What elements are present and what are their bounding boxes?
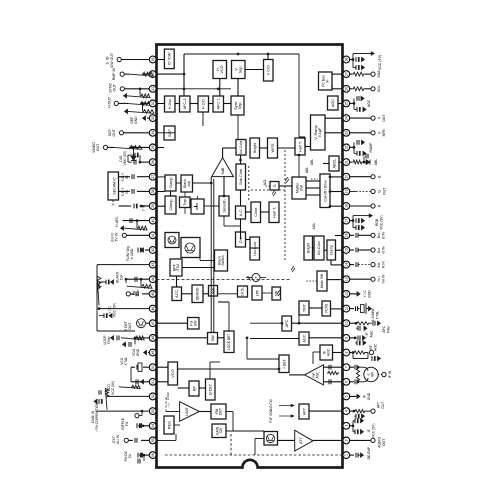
pin 18 [342, 205, 344, 207]
svg-text:19: 19 [345, 189, 349, 193]
svg-text:Half T.: Half T. [272, 207, 276, 218]
svg-text:H C/D: H C/D [202, 99, 206, 110]
pin 55 [155, 439, 157, 441]
svg-text:RGB: RGB [375, 218, 379, 226]
wire Y signal bus a [210, 177, 212, 333]
terminal R OUT [350, 205, 371, 207]
svg-text:31: 31 [151, 87, 155, 91]
wire SECAM p38 [137, 190, 149, 192]
APC filter net [350, 322, 356, 324]
svg-text:42: 42 [151, 248, 155, 252]
svg-text:44: 44 [151, 277, 155, 281]
svg-text:X'TAL: X'TAL [375, 311, 379, 320]
crystal VCO [143, 366, 149, 368]
wire long loop left [97, 264, 149, 266]
block V Sep [232, 61, 246, 79]
block Mode SW [317, 271, 327, 291]
wire clamp2 row [197, 196, 199, 199]
wire pin48 to SW2 [157, 337, 208, 339]
svg-text:20: 20 [345, 175, 349, 179]
capacitor PIF 7 [328, 365, 330, 370]
diode ABL [366, 160, 370, 165]
svg-text:Filter: Filter [107, 335, 111, 343]
dashed RGB frame short [248, 165, 250, 200]
capacitor dig vdd [134, 153, 136, 158]
video out network [129, 146, 149, 148]
block IF AGC [320, 345, 333, 360]
pin 7 [342, 366, 344, 368]
IC body outline with index notch [157, 45, 343, 468]
wire UniColor3 to pin15 [335, 249, 343, 251]
pin 46 [155, 308, 157, 310]
wire UniColor2 down [250, 247, 260, 249]
pin 42 [155, 249, 157, 251]
svg-text:9.1µF: 9.1µF [318, 127, 322, 137]
pin 41 [155, 234, 157, 236]
block SCP [164, 126, 175, 140]
block I2C Bus IF [319, 72, 333, 90]
pin 52 [155, 395, 157, 397]
svg-text:SU: SU [128, 453, 132, 458]
svg-text:35: 35 [151, 145, 155, 149]
resistor H OUT 2 [142, 103, 144, 111]
svg-text:AGC: AGC [326, 348, 330, 356]
svg-text:VCC (5V): VCC (5V) [371, 424, 375, 439]
svg-text:AFT: AFT [377, 402, 381, 408]
wire VCXO to pin11 [331, 308, 343, 310]
block TINT [299, 301, 309, 315]
dashed vert RGB [249, 189, 285, 191]
pin 45 [155, 293, 157, 295]
block BP [189, 381, 199, 396]
svg-text:Ext.: Ext. [377, 262, 381, 268]
svg-text:7: 7 [345, 366, 349, 368]
ext audio in [141, 439, 149, 441]
wire BlackAdj out [193, 182, 212, 184]
wire audio T input [255, 438, 264, 440]
pin 5 [342, 395, 344, 397]
wire ABCL to pin21 [339, 161, 343, 163]
pin 33 [155, 117, 157, 119]
block Clamp 2 [165, 196, 176, 214]
svg-text:36: 36 [151, 160, 155, 164]
dashed bottom joint [230, 433, 232, 455]
H.AFC network [123, 220, 150, 222]
pin 13 [342, 278, 344, 280]
svg-text:VDD (5V): VDD (5V) [123, 151, 127, 166]
wire pin50 to VCO [157, 366, 169, 368]
svg-text:IF: IF [363, 395, 367, 398]
terminal SCP OUT [124, 132, 150, 134]
svg-text:AGC: AGC [367, 99, 371, 107]
pin 35 [155, 146, 157, 148]
svg-text:SW: SW [193, 320, 197, 326]
wire VRamp to pin23 [325, 132, 343, 134]
wire chroma chain c [240, 190, 242, 206]
svg-text:AGC: AGC [302, 334, 306, 342]
wire pin38 inner [157, 191, 166, 193]
amplifier PIF AGC [305, 365, 324, 385]
svg-text:Q-DET: Q-DET [209, 383, 213, 395]
wire matrix to cutoff 1 [306, 194, 320, 196]
VCC 9V caps [350, 59, 353, 61]
svg-text:Bright: Bright [307, 243, 311, 253]
svg-text:IF: IF [365, 332, 369, 335]
pin 34 [155, 132, 157, 134]
svg-text:OUT: OUT [383, 187, 387, 195]
wire WPS-HalfT link [278, 147, 296, 149]
block Cut-off/Drive [320, 174, 330, 208]
resistor H OUT net [140, 102, 149, 104]
block AFT [299, 404, 309, 419]
wire matrix to cutoff 3 [306, 180, 320, 182]
svg-text:41: 41 [151, 233, 155, 237]
svg-text:H.AFC: H.AFC [115, 216, 119, 227]
svg-text:Uni-Color: Uni-Color [239, 140, 243, 154]
svg-text:27: 27 [345, 72, 349, 76]
wire Cin to Smooth [204, 205, 219, 207]
block Uni-Color 3 [314, 236, 324, 260]
wire demod row b [203, 293, 209, 295]
block D.L. [236, 232, 246, 247]
svg-text:ABL: ABL [310, 159, 314, 165]
wire ABCL up [323, 163, 329, 165]
wire Clamp3 to pin14 [335, 264, 343, 266]
svg-text:Y / C: Y / C [363, 290, 367, 298]
wire demod row c [218, 293, 238, 295]
svg-text:I-DET: I-DET [282, 358, 286, 368]
wire chroma chain b [240, 219, 242, 232]
svg-text:4: 4 [345, 410, 349, 412]
wire chroma chain d [240, 155, 242, 164]
svg-text:OUT: OUT [382, 439, 386, 446]
wire pin51 to VCO [157, 381, 169, 383]
svg-text:Color: Color [254, 207, 258, 217]
VCO VCC network [119, 385, 140, 388]
svg-text:Ext.: Ext. [377, 247, 381, 253]
svg-text:G: G [272, 184, 277, 187]
wire pin35 inner [157, 147, 165, 149]
block ABCL [329, 156, 339, 171]
block AGC chroma [299, 332, 309, 345]
svg-text:38: 38 [151, 189, 155, 193]
wire pin39 inner [157, 205, 166, 207]
block Trap [180, 197, 191, 208]
wire adder right [260, 277, 266, 279]
svg-text:AGL: AGL [312, 223, 316, 230]
pin 2 [342, 439, 344, 441]
svg-text:14: 14 [345, 263, 349, 267]
terminal TV IN [126, 234, 149, 236]
svg-text:A.C.: A.C. [239, 209, 243, 216]
block A.C. [236, 206, 246, 219]
svg-text:DEMOD: DEMOD [196, 287, 200, 300]
pin 29 [155, 59, 157, 61]
wire Color row link [261, 211, 270, 213]
svg-text:ABL: ABL [374, 159, 378, 166]
wire VC/D to rail [267, 54, 269, 60]
pin 53 [155, 410, 157, 412]
svg-text:in GND: in GND [130, 248, 134, 259]
svg-text:55: 55 [151, 438, 155, 442]
pin 23 [342, 132, 344, 134]
wire pin47 to PolSW [157, 322, 188, 324]
AGC ext caps [350, 102, 354, 104]
pin 56 [155, 454, 157, 456]
wire BPF down [182, 267, 215, 269]
wire pin44 bus dashed [157, 279, 291, 281]
wire AGC to pin25 [338, 103, 343, 105]
svg-text:51: 51 [151, 380, 155, 384]
block Uni-Color 2 [250, 237, 260, 260]
block LPF [252, 286, 262, 300]
svg-text:24: 24 [345, 116, 349, 120]
svg-text:17: 17 [345, 219, 349, 223]
svg-text:V C/D: V C/D [266, 65, 271, 76]
svg-text:46: 46 [151, 307, 155, 311]
amplifier Y-amp 6dB [212, 158, 234, 177]
block Matrix SW [292, 177, 306, 199]
svg-text:11: 11 [345, 307, 349, 311]
svg-text:DET: DET [219, 407, 223, 415]
resistor PIF load [327, 371, 339, 374]
block Smooth [219, 196, 229, 216]
svg-text:SW: SW [211, 335, 215, 342]
pin 8 [342, 352, 344, 354]
svg-text:Uni-Color: Uni-Color [317, 240, 321, 255]
svg-text:AFC-1: AFC-1 [217, 99, 221, 110]
terminal Ys/Ym [350, 278, 371, 280]
svg-text:Half T.: Half T. [298, 141, 302, 152]
wire Smooth to Yamp [223, 177, 225, 196]
pin 31 [155, 88, 157, 90]
svg-text:Y IN: Y IN [142, 204, 146, 211]
pin 39 [155, 205, 157, 207]
block FM DET [211, 404, 226, 419]
pin 20 [342, 176, 344, 178]
wire IDET left [247, 358, 279, 360]
wire pin29 stub [157, 59, 165, 61]
wire IDET-PIF [289, 374, 305, 376]
cap Ext R IN [350, 264, 354, 266]
wire VSep to VC/D [245, 69, 264, 71]
wire PIF out 7 [323, 366, 342, 368]
pin 11 [342, 308, 344, 310]
svg-text:RAMP: RAMP [369, 142, 373, 153]
svg-text:28: 28 [345, 58, 349, 62]
svg-text:Sub-Cont: Sub-Cont [239, 168, 243, 185]
svg-text:VCO: VCO [170, 369, 175, 377]
svg-text:Mode SW: Mode SW [320, 273, 324, 288]
svg-text:52: 52 [151, 394, 155, 398]
pin 6 [342, 381, 344, 383]
pin 40 [155, 220, 157, 222]
svg-text:Bright: Bright [252, 142, 257, 153]
pin 32 [155, 102, 157, 104]
block Bright 1 [250, 138, 260, 158]
wire pin55 into REG [157, 439, 177, 441]
wire top rail [184, 53, 299, 55]
pin 44 [155, 278, 157, 280]
block VCXO [322, 301, 331, 316]
svg-text:22: 22 [345, 145, 349, 149]
SAW filter [364, 367, 378, 381]
svg-text:TV IN: TV IN [115, 232, 119, 241]
wire ModeSW to pin13 [327, 279, 343, 281]
pin 16 [342, 234, 344, 236]
svg-text:FIL: FIL [125, 421, 129, 426]
svg-text:9: 9 [345, 337, 349, 339]
svg-text:DE.EMP: DE.EMP [367, 446, 371, 459]
svg-text:12: 12 [345, 292, 349, 296]
block AGC vertical [328, 96, 339, 110]
wire G up [264, 185, 270, 187]
pin 27 [342, 73, 344, 75]
svg-text:33: 33 [151, 116, 155, 120]
wire IFAGC-PIF [313, 351, 320, 353]
block GAIN SW [212, 424, 226, 438]
wire Yamp apex [222, 148, 224, 158]
svg-text:AU IN: AU IN [116, 434, 120, 443]
wire HalfT-VRamp link [305, 146, 311, 148]
wire SECAM p37 [137, 176, 149, 178]
wire SAW pin7 [350, 366, 354, 368]
svg-text:49: 49 [151, 351, 155, 355]
svg-text:32: 32 [151, 101, 155, 105]
svg-text:→|← Conv.: →|← Conv. [166, 392, 170, 408]
pin 12 [342, 293, 344, 295]
block G gamma [270, 182, 279, 191]
crystal body 443 [361, 305, 365, 313]
svg-text:AFT: AFT [302, 407, 306, 415]
svg-text:AGC: AGC [330, 99, 335, 108]
wire VRamp to pin24 [325, 117, 343, 119]
svg-text:5: 5 [345, 395, 349, 397]
black det network [126, 278, 149, 280]
ground SYNC load [124, 94, 127, 98]
wire DL down [246, 239, 251, 241]
block BPF/TOJ [170, 259, 182, 276]
RF AGC network [350, 352, 353, 354]
terminal AUDIO OUT [350, 439, 371, 441]
wire I2C to pin26 [332, 88, 343, 90]
resistor RMP IN [142, 73, 149, 75]
terminal G OUT [350, 190, 356, 192]
wire VCO to I-DET [178, 368, 280, 370]
wire LIMIT input [166, 411, 180, 413]
block SW 3 [272, 287, 281, 300]
svg-text:GND: GND [367, 392, 371, 400]
pin 26 [342, 88, 344, 90]
svg-text:SW: SW [219, 427, 223, 433]
svg-text:21: 21 [345, 160, 349, 164]
pin 54 [155, 425, 157, 427]
wire FM corr long [96, 410, 149, 412]
svg-text:Ext.: Ext. [377, 232, 381, 238]
wire G to matrix [279, 185, 292, 187]
svg-text:4.43MHz: 4.43MHz [371, 308, 375, 322]
svg-text:40: 40 [151, 219, 155, 223]
svg-text:AGC: AGC [369, 330, 373, 338]
block H VCO [213, 61, 227, 79]
svg-text:LOCK DET: LOCK DET [227, 334, 231, 351]
svg-text:IF IN: IF IN [388, 370, 392, 378]
pin 51 [155, 381, 157, 383]
svg-text:1: 1 [345, 454, 349, 456]
block transistor cell 2 [181, 238, 200, 258]
resistor SAW term [356, 367, 359, 382]
wire BP-QDET [199, 387, 206, 389]
svg-text:GND: GND [134, 116, 138, 124]
svg-text:C in: C in [136, 290, 140, 296]
wire REG down [174, 424, 180, 426]
wire VC/D rail [298, 54, 300, 137]
Y/C VCC rail [97, 276, 101, 305]
svg-text:SW: SW [299, 185, 303, 191]
svg-text:P1F VCO: P1F VCO [269, 409, 273, 423]
wire pin32 to H Osc [157, 103, 165, 105]
wire SAW pin6 [350, 381, 354, 383]
svg-text:AUDIO: AUDIO [378, 437, 382, 448]
wire cutoff to pin20 [330, 176, 343, 178]
wire secam link [112, 200, 114, 206]
svg-text:OUT: OUT [382, 114, 386, 122]
wire pin37 secam inner [157, 176, 166, 178]
svg-text:53: 53 [151, 409, 155, 413]
pin 37 [155, 176, 157, 178]
dashed RGB frame long [284, 150, 286, 260]
ground Y/C GND [350, 293, 357, 295]
pin 9 [342, 337, 344, 339]
crystal 4.43MHz [350, 308, 354, 310]
block Uni-Color 1 [236, 140, 246, 156]
junction sync bus [183, 87, 186, 90]
resistor SCL [350, 88, 352, 90]
pin 17 [342, 220, 344, 222]
pin 24 [342, 117, 344, 119]
terminal IF IN [382, 372, 386, 376]
block C-in switch [191, 199, 204, 214]
svg-text:Trap: Trap [183, 199, 187, 206]
wire LIMIT-FMDET [199, 411, 211, 413]
svg-text:APC: APC [382, 325, 386, 332]
wire LPF-SW3 [262, 292, 272, 294]
svg-text:APC: APC [285, 319, 289, 327]
pin 36 [155, 161, 157, 163]
loop filter network [135, 337, 149, 339]
wire VCO-BP [178, 387, 190, 389]
transistor B DET OUT [146, 322, 149, 324]
svg-text:RF: RF [369, 345, 373, 349]
block ACC [172, 287, 182, 301]
terminal S.ID/CW OUT [121, 59, 149, 61]
svg-text:VCO: VCO [220, 65, 224, 73]
svg-text:G: G [378, 190, 382, 193]
wire AFC row link 1 [175, 103, 180, 105]
wire TINT-VCXO [309, 307, 322, 309]
ext C in cap [142, 293, 149, 295]
crystal body [138, 363, 142, 371]
svg-text:BP: BP [192, 386, 196, 392]
AFT out net [350, 410, 354, 412]
block Clamp 3 [327, 240, 336, 260]
svg-text:VCC (5V): VCC (5V) [113, 303, 117, 318]
RAMP caps [350, 146, 354, 148]
svg-text:/CW OUT: /CW OUT [110, 52, 114, 68]
wire APC-TINT [298, 308, 300, 323]
svg-text:B IN: B IN [381, 231, 385, 238]
wire HC/D stub [202, 112, 204, 126]
